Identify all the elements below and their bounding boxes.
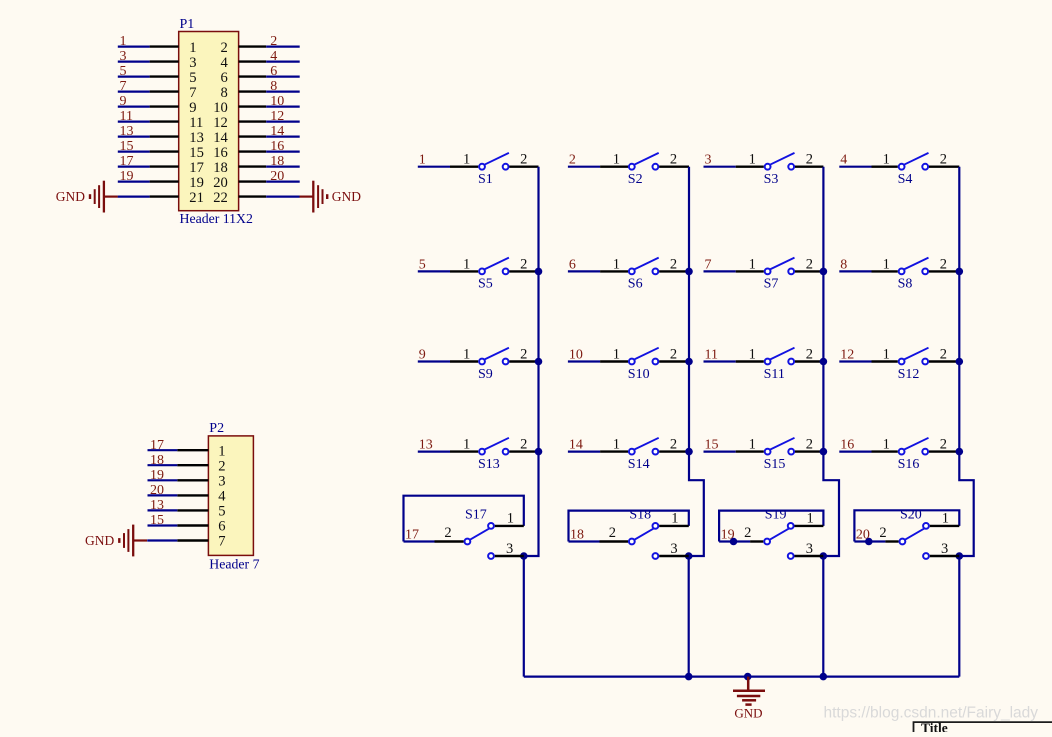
pin 9 of P1: [150, 105, 179, 107]
pin 7 of P1: [150, 90, 179, 92]
svg-text:8: 8: [221, 85, 228, 101]
svg-text:S3: S3: [764, 172, 779, 187]
junction column 2 switch S18 pin 3: [685, 552, 693, 560]
wire net 5 into S5: [418, 270, 450, 272]
svg-text:12: 12: [213, 115, 228, 131]
wire net 13 into S13: [418, 451, 450, 453]
wire net 20 into S20: [854, 540, 885, 542]
svg-text:S1: S1: [478, 172, 493, 187]
pin 20 of P1: [239, 180, 267, 182]
svg-text:https://blog.csdn.net/Fairy_la: https://blog.csdn.net/Fairy_lady: [824, 705, 1039, 722]
switch S4: [872, 152, 960, 187]
svg-text:13: 13: [419, 438, 433, 453]
svg-text:1: 1: [613, 347, 620, 363]
svg-text:1: 1: [463, 256, 470, 272]
pin 6 of P1: [239, 75, 267, 77]
svg-text:16: 16: [840, 438, 854, 453]
wire net 10 into S10: [568, 360, 600, 362]
wire net 2 at P1 pin 2: [266, 45, 300, 47]
svg-text:2: 2: [520, 256, 527, 272]
svg-text:4: 4: [221, 55, 229, 71]
switch S2: [600, 152, 689, 187]
svg-text:1: 1: [463, 347, 470, 363]
wire net 19 into S19: [719, 540, 750, 542]
wire column bus 3: [823, 167, 839, 556]
wire net 11 at P1 pin 11: [118, 120, 150, 122]
switch S14: [600, 437, 689, 472]
wire net 7 into S7: [704, 270, 736, 272]
svg-text:5: 5: [419, 257, 426, 272]
svg-text:1: 1: [883, 437, 890, 453]
power ground symbol at P2 pin 7: [85, 525, 147, 557]
svg-text:8: 8: [270, 79, 277, 94]
wire column bus 4: [959, 167, 973, 556]
pin 3 of P1: [150, 60, 179, 62]
pin 1 of P2: [177, 449, 208, 451]
wire net 15 at P1 pin 15: [118, 151, 150, 153]
pin 2 of P1: [239, 45, 267, 47]
junction column 4 row at y=452: [956, 448, 964, 456]
wire feedback loop around S18: [569, 511, 689, 542]
wire net 8 into S8: [839, 270, 871, 272]
wire net 17 at P2 pin 1: [148, 449, 178, 451]
svg-text:10: 10: [213, 100, 228, 116]
wire ground rail: [524, 675, 960, 677]
switch S3: [736, 152, 824, 187]
svg-text:S11: S11: [764, 367, 785, 382]
svg-text:15: 15: [705, 438, 719, 453]
wire net 8 at P1 pin 8: [266, 90, 300, 92]
switch S6: [600, 256, 689, 291]
svg-text:1: 1: [807, 511, 814, 527]
svg-text:9: 9: [120, 94, 127, 109]
svg-text:1: 1: [883, 152, 890, 168]
svg-text:10: 10: [270, 94, 284, 109]
svg-text:2: 2: [520, 437, 527, 453]
wire net 9 at P1 pin 9: [118, 105, 150, 107]
wire net 1 into S1: [418, 166, 450, 168]
svg-text:P2: P2: [209, 421, 224, 436]
svg-text:11: 11: [705, 348, 718, 363]
svg-text:3: 3: [218, 474, 225, 490]
wire net 7 at P1 pin 7: [118, 90, 150, 92]
svg-text:14: 14: [270, 124, 284, 139]
svg-text:9: 9: [419, 348, 426, 363]
svg-text:1: 1: [671, 511, 678, 527]
pin 5 of P1: [150, 75, 179, 77]
wire net 20 at P1 pin 20: [266, 181, 300, 183]
junction column 2 row at y=452: [685, 448, 693, 456]
junction column 3 switch S19 pin 3: [820, 552, 828, 560]
svg-text:2: 2: [520, 347, 527, 363]
svg-text:4: 4: [270, 49, 277, 64]
svg-text:2: 2: [520, 152, 527, 168]
junction column 4 row at y=271: [956, 268, 964, 276]
junction column 1 row at y=271: [535, 268, 543, 276]
svg-text:6: 6: [270, 64, 277, 79]
pin 17 of P1: [150, 165, 179, 167]
title block border: [914, 722, 1052, 732]
svg-text:2: 2: [670, 437, 677, 453]
pin 4 of P2: [177, 494, 208, 496]
pin 10 of P1: [239, 105, 267, 107]
wire net 15 at P2 pin 6: [148, 524, 178, 526]
svg-text:1: 1: [749, 256, 756, 272]
svg-text:S4: S4: [898, 172, 913, 187]
svg-text:2: 2: [806, 437, 813, 453]
wire net 9 into S9: [418, 360, 450, 362]
svg-text:S16: S16: [898, 457, 920, 472]
svg-text:1: 1: [120, 34, 127, 49]
svg-text:7: 7: [218, 534, 225, 550]
switch S11: [736, 347, 824, 382]
wire net 14 into S14: [568, 451, 600, 453]
pin 13 of P1: [150, 135, 179, 137]
pin 22 of P1: [239, 195, 267, 197]
svg-text:18: 18: [150, 453, 164, 468]
svg-text:3: 3: [120, 49, 127, 64]
svg-text:1: 1: [883, 256, 890, 272]
wire net 16 at P1 pin 16: [266, 151, 300, 153]
svg-text:3: 3: [506, 541, 513, 557]
svg-text:1: 1: [613, 256, 620, 272]
junction column 3 row at y=362: [820, 358, 828, 366]
wire column bus 1: [524, 167, 539, 556]
svg-text:1: 1: [749, 152, 756, 168]
pin 12 of P1: [239, 120, 267, 122]
wire net 14 at P1 pin 14: [266, 136, 300, 138]
svg-text:S20: S20: [900, 508, 922, 523]
svg-text:2: 2: [569, 153, 576, 168]
pin 14 of P1: [239, 135, 267, 137]
svg-text:2: 2: [806, 152, 813, 168]
svg-text:3: 3: [670, 541, 677, 557]
switch S1: [450, 152, 539, 187]
svg-text:11: 11: [120, 109, 133, 124]
svg-text:11: 11: [189, 115, 203, 131]
wire net 20 at P2 pin 4: [148, 494, 178, 496]
wire net 11 into S11: [704, 360, 736, 362]
svg-text:S15: S15: [764, 457, 786, 472]
junction column 4 switch S20 pin 3: [956, 552, 964, 560]
wire net 6 at P1 pin 6: [266, 75, 300, 77]
junction column 1 row at y=452: [535, 448, 543, 456]
wire GND to P1 pin 22: [266, 196, 299, 198]
switch S7: [736, 256, 824, 291]
svg-text:GND: GND: [734, 705, 762, 720]
svg-text:7: 7: [120, 79, 127, 94]
wire net 18 at P2 pin 2: [148, 464, 178, 466]
svg-text:19: 19: [721, 528, 735, 543]
svg-text:2: 2: [270, 34, 277, 49]
svg-text:2: 2: [609, 525, 616, 541]
svg-text:2: 2: [218, 458, 225, 474]
wire net 3 into S3: [704, 166, 736, 168]
wire net 6 into S6: [568, 270, 600, 272]
pin 4 of P1: [239, 60, 267, 62]
junction rail column 3: [820, 673, 828, 681]
switch S19: [744, 508, 823, 559]
svg-text:S19: S19: [765, 508, 787, 523]
wire net 5 at P1 pin 5: [118, 75, 150, 77]
wire net 15 into S15: [704, 451, 736, 453]
svg-text:19: 19: [189, 175, 204, 191]
svg-text:10: 10: [569, 348, 583, 363]
svg-text:2: 2: [744, 525, 751, 541]
wire net 12 into S12: [839, 360, 871, 362]
wire net 17 into S17: [404, 540, 435, 542]
svg-text:1: 1: [883, 347, 890, 363]
wire net 1 at P1 pin 1: [118, 45, 150, 47]
svg-text:S12: S12: [898, 367, 920, 382]
svg-text:17: 17: [150, 438, 164, 453]
svg-text:P1: P1: [180, 17, 195, 32]
svg-text:S8: S8: [898, 277, 913, 292]
svg-text:2: 2: [670, 152, 677, 168]
svg-text:19: 19: [120, 169, 134, 184]
svg-text:GND: GND: [56, 189, 85, 204]
svg-text:6: 6: [218, 519, 225, 535]
svg-text:S17: S17: [465, 508, 487, 523]
svg-text:1: 1: [749, 347, 756, 363]
pin 6 of P2: [177, 524, 208, 526]
svg-text:7: 7: [705, 257, 712, 272]
wire net 10 at P1 pin 10: [266, 105, 300, 107]
svg-text:S18: S18: [629, 508, 651, 523]
svg-text:2: 2: [670, 256, 677, 272]
svg-text:1: 1: [942, 511, 949, 527]
switch S5: [450, 256, 539, 291]
svg-text:14: 14: [569, 438, 583, 453]
junction column 2 row at y=362: [685, 358, 693, 366]
svg-text:S10: S10: [628, 367, 650, 382]
svg-text:3: 3: [189, 55, 196, 71]
svg-text:S6: S6: [628, 277, 643, 292]
svg-text:S7: S7: [764, 277, 779, 292]
svg-text:Header 7: Header 7: [209, 556, 259, 571]
svg-text:19: 19: [150, 468, 164, 483]
pin 5 of P2: [177, 509, 208, 511]
wire net 16 into S16: [839, 451, 871, 453]
wire net 19 at P1 pin 19: [118, 181, 150, 183]
junction rail column 2: [685, 673, 693, 681]
svg-text:17: 17: [120, 154, 134, 169]
svg-text:2: 2: [940, 256, 947, 272]
svg-text:6: 6: [221, 70, 228, 86]
svg-text:6: 6: [569, 257, 576, 272]
svg-text:2: 2: [221, 40, 228, 56]
switch S12: [872, 347, 960, 382]
svg-text:5: 5: [218, 504, 225, 520]
junction column 4 row at y=362: [956, 358, 964, 366]
wire net 4 into S4: [839, 166, 871, 168]
svg-text:1: 1: [507, 511, 514, 527]
svg-text:12: 12: [270, 109, 284, 124]
svg-text:4: 4: [840, 153, 847, 168]
svg-text:S9: S9: [478, 367, 493, 382]
connector P2 body: [208, 436, 253, 556]
svg-text:18: 18: [213, 160, 228, 176]
svg-text:17: 17: [189, 160, 204, 176]
svg-text:15: 15: [150, 513, 164, 528]
power ground symbol at P1 pin 22: [300, 181, 362, 213]
svg-text:15: 15: [189, 145, 204, 161]
switch S17: [435, 508, 524, 559]
pin 11 of P1: [150, 120, 179, 122]
svg-text:20: 20: [270, 169, 284, 184]
svg-text:17: 17: [405, 528, 419, 543]
wire net 18 at P1 pin 18: [266, 166, 300, 168]
svg-text:3: 3: [941, 541, 948, 557]
junction rail GND stem: [744, 673, 752, 681]
svg-text:3: 3: [705, 153, 712, 168]
svg-text:2: 2: [444, 525, 451, 541]
pin 7 of P2: [177, 539, 208, 541]
switch S10: [600, 347, 689, 382]
pin 18 of P1: [239, 165, 267, 167]
wire net 18 into S18: [569, 540, 600, 542]
wire feedback loop around S19: [719, 511, 823, 542]
wire feedback loop around S17: [404, 496, 524, 542]
svg-text:S5: S5: [478, 277, 493, 292]
svg-text:16: 16: [213, 145, 228, 161]
junction net 20 at S20: [865, 538, 873, 546]
svg-text:3: 3: [806, 541, 813, 557]
pin 15 of P1: [150, 150, 179, 152]
wire net 19 at P2 pin 3: [148, 479, 178, 481]
svg-text:1: 1: [613, 437, 620, 453]
svg-text:1: 1: [613, 152, 620, 168]
svg-text:13: 13: [120, 124, 134, 139]
svg-text:13: 13: [150, 498, 164, 513]
wire net 13 at P2 pin 5: [148, 509, 178, 511]
switch S13: [450, 437, 539, 472]
svg-text:2: 2: [670, 347, 677, 363]
svg-text:1: 1: [463, 152, 470, 168]
switch S8: [872, 256, 960, 291]
switch S16: [872, 437, 960, 472]
svg-text:GND: GND: [85, 533, 114, 548]
connector P1 body: [179, 32, 239, 211]
svg-text:S2: S2: [628, 172, 643, 187]
svg-text:2: 2: [806, 347, 813, 363]
wire GND to P2 pin 7: [147, 539, 177, 541]
svg-text:7: 7: [189, 85, 196, 101]
svg-text:Title: Title: [921, 720, 948, 732]
earth ground symbol GND: [733, 677, 765, 705]
svg-text:13: 13: [189, 130, 204, 146]
switch S9: [450, 347, 539, 382]
svg-text:5: 5: [189, 70, 196, 86]
wire net 17 at P1 pin 17: [118, 166, 150, 168]
svg-text:2: 2: [940, 347, 947, 363]
svg-text:1: 1: [419, 153, 426, 168]
pin 8 of P1: [239, 90, 267, 92]
power ground symbol at P1 pin 21: [56, 181, 118, 213]
pin 2 of P2: [177, 464, 208, 466]
switch S15: [736, 437, 824, 472]
svg-text:S13: S13: [478, 457, 500, 472]
svg-text:21: 21: [189, 190, 204, 206]
svg-text:20: 20: [213, 175, 228, 191]
wire net 4 at P1 pin 4: [266, 60, 300, 62]
svg-text:15: 15: [120, 139, 134, 154]
svg-text:9: 9: [189, 100, 196, 116]
svg-text:GND: GND: [332, 189, 361, 204]
svg-text:18: 18: [270, 154, 284, 169]
junction column 3 row at y=271: [820, 268, 828, 276]
svg-text:20: 20: [856, 528, 870, 543]
svg-text:1: 1: [218, 443, 225, 459]
svg-text:1: 1: [189, 40, 196, 56]
svg-text:18: 18: [570, 528, 584, 543]
pin 1 of P1: [150, 45, 179, 47]
svg-text:1: 1: [463, 437, 470, 453]
wire feedback loop around S20: [854, 510, 959, 541]
svg-text:4: 4: [218, 489, 226, 505]
junction column 2 row at y=271: [685, 268, 693, 276]
junction column 1 switch S17 pin 3: [520, 552, 528, 560]
svg-text:14: 14: [213, 130, 228, 146]
wire net 2 into S2: [568, 166, 600, 168]
pin 21 of P1: [150, 195, 179, 197]
svg-text:16: 16: [270, 139, 284, 154]
svg-text:8: 8: [840, 257, 847, 272]
svg-text:5: 5: [120, 64, 127, 79]
svg-text:S14: S14: [628, 457, 650, 472]
switch S18: [600, 508, 689, 559]
junction net 19 at S19: [730, 538, 738, 546]
svg-text:20: 20: [150, 483, 164, 498]
svg-text:12: 12: [840, 348, 854, 363]
svg-text:2: 2: [940, 152, 947, 168]
svg-text:Header 11X2: Header 11X2: [180, 211, 254, 226]
wire net 3 at P1 pin 3: [118, 60, 150, 62]
wire GND to P1 pin 21: [118, 196, 150, 198]
pin 19 of P1: [150, 180, 179, 182]
wire net 13 at P1 pin 13: [118, 136, 150, 138]
junction column 1 row at y=362: [535, 358, 543, 366]
pin 3 of P2: [177, 479, 208, 481]
svg-text:2: 2: [940, 437, 947, 453]
svg-text:2: 2: [806, 256, 813, 272]
svg-text:22: 22: [213, 190, 228, 206]
junction column 3 row at y=452: [820, 448, 828, 456]
wire net 12 at P1 pin 12: [266, 120, 300, 122]
pin 16 of P1: [239, 150, 267, 152]
svg-text:1: 1: [749, 437, 756, 453]
switch S20: [879, 508, 959, 559]
svg-text:2: 2: [879, 525, 886, 541]
wire column bus 2: [689, 167, 704, 556]
